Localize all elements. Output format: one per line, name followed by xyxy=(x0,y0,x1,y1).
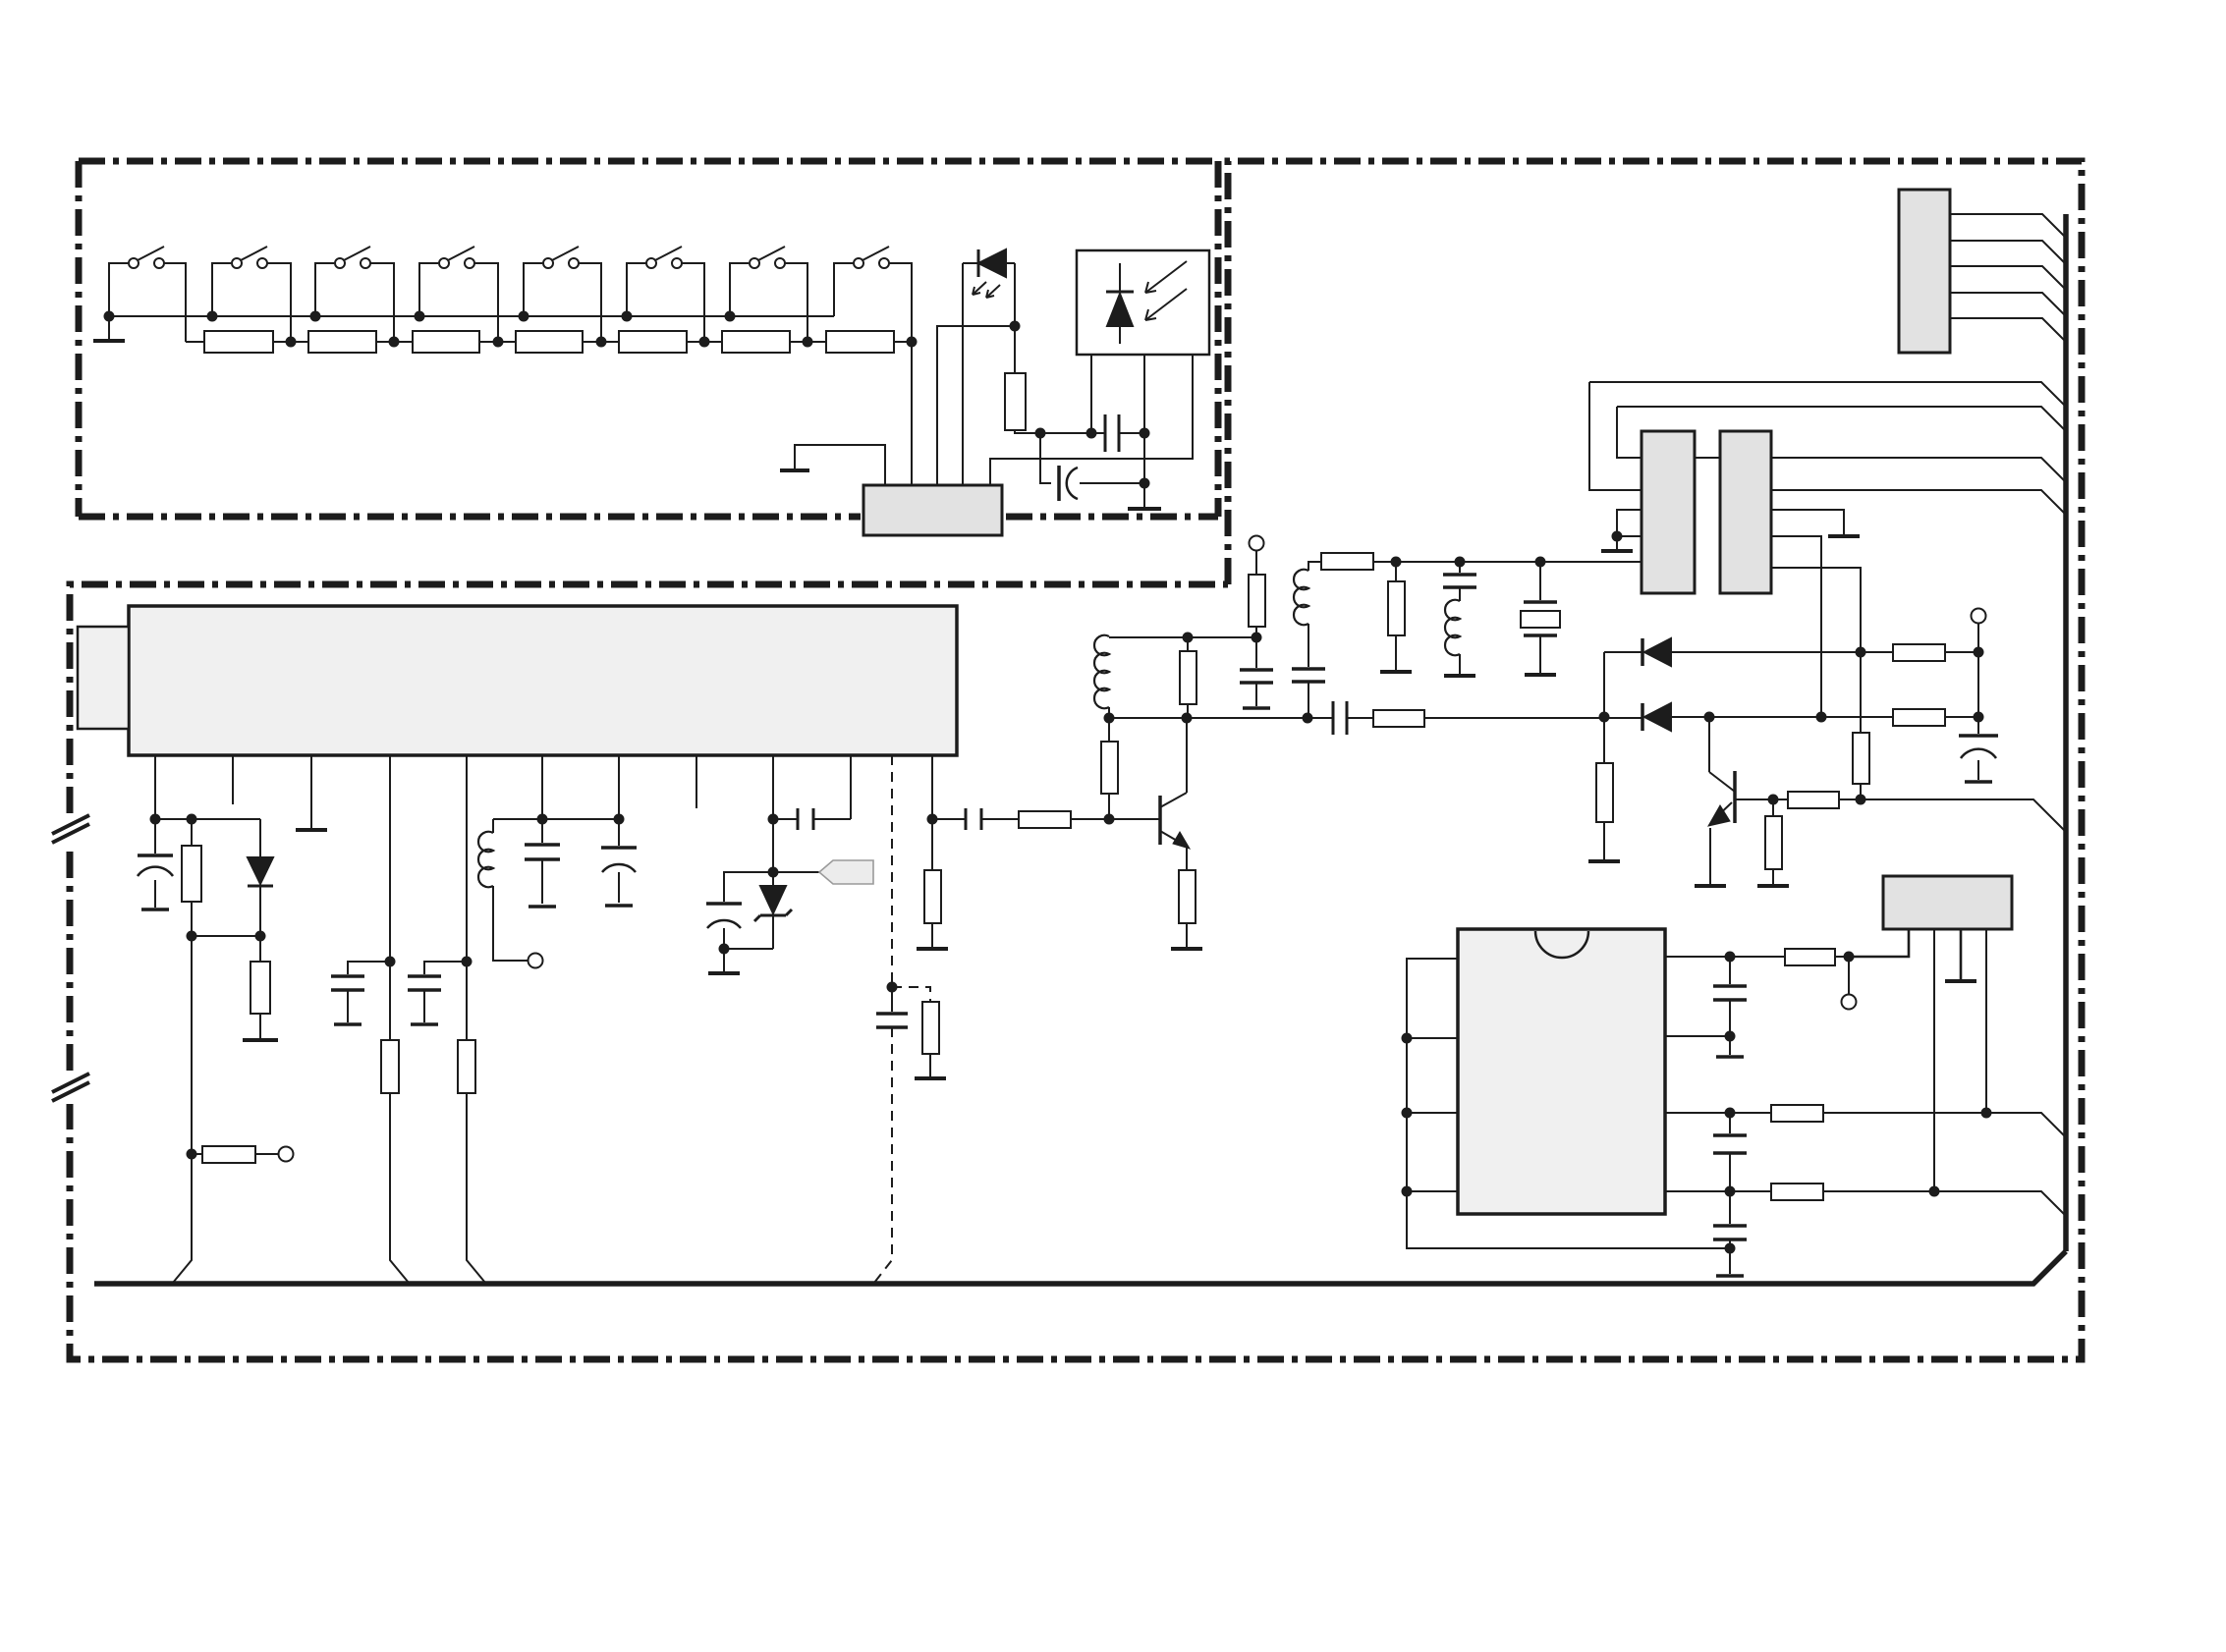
capacitor C14 xyxy=(1292,624,1325,718)
node rail sw7 xyxy=(725,311,736,322)
node R1 xyxy=(1725,952,1736,963)
node collector rail tap xyxy=(1303,713,1313,724)
node R4 xyxy=(1725,1186,1736,1197)
ground (R16) xyxy=(915,1076,946,1080)
wire J1 pin5 xyxy=(1950,318,2066,342)
wire pin8 stub xyxy=(696,755,697,808)
wire pin11 xyxy=(931,755,933,819)
capacitor C5 xyxy=(408,962,467,1024)
resistor R28 xyxy=(1788,792,1861,808)
capacitor C3 (electrolytic) xyxy=(138,819,173,909)
wire pin5 down to bus xyxy=(467,755,485,1283)
resistor R14 xyxy=(1019,811,1109,828)
node D5 T2 tap xyxy=(1816,712,1827,723)
voltage regulator U2 xyxy=(1883,876,2012,929)
wire tap5 xyxy=(704,341,722,343)
wire base feed xyxy=(1109,818,1160,820)
IF transformer T1 xyxy=(1642,431,1695,593)
resistor R22 (IF rail) xyxy=(1321,553,1642,570)
wire T2 pin R2 to bus xyxy=(1771,490,2065,514)
wire bus line B xyxy=(1617,407,2065,430)
wire pin1 xyxy=(154,755,156,819)
wire photodiode box lead mid xyxy=(1143,355,1145,483)
resistor R13 (in pin5 line) xyxy=(458,1040,475,1093)
node R31 line tap xyxy=(1981,1108,1992,1119)
node rail sw6 xyxy=(622,311,633,322)
capacitor C2 (electrolytic) xyxy=(1040,433,1144,501)
wire dashed tap to R16 xyxy=(892,987,930,1002)
zener diode ZD1 xyxy=(754,872,792,949)
resistor R21 xyxy=(1373,710,1424,727)
node tap2 xyxy=(389,337,400,348)
stub C19 return xyxy=(1729,1248,1731,1274)
switch S6 xyxy=(627,247,704,342)
ground (T1) xyxy=(1601,549,1633,553)
wire U3 pin R1 xyxy=(1665,956,1730,958)
wire zener to flag xyxy=(773,871,819,873)
node LED anode junction xyxy=(1010,321,1021,332)
wire pin4 down to bus xyxy=(390,755,409,1283)
wire tap3 xyxy=(498,341,516,343)
capacitor C6 xyxy=(525,819,560,907)
ground bus (thick) xyxy=(94,1251,2066,1284)
wire U3 pin R2 xyxy=(1665,1035,1730,1037)
ground (keyboard common rail) xyxy=(93,316,125,341)
audio IC U3 xyxy=(1458,929,1665,1214)
resistor R20 (to test point) xyxy=(1249,551,1265,637)
wire D4 left drop xyxy=(1603,652,1605,717)
capacitor C4 xyxy=(331,962,390,1024)
node R3 xyxy=(1725,1108,1736,1119)
ground (R29) xyxy=(1757,884,1789,888)
ground (U2) xyxy=(1945,979,1976,983)
node R9 top xyxy=(187,814,197,825)
node U2 input xyxy=(1844,952,1855,963)
wire AFT vertical xyxy=(1977,623,1979,734)
node R17 top xyxy=(1104,713,1115,724)
node T1 L4 xyxy=(1612,531,1623,542)
wire T2 pin R5 drop xyxy=(1771,568,1861,652)
node D4 line tap xyxy=(1856,647,1866,658)
resistor R7 (ladder) xyxy=(826,331,912,353)
resistor R10 xyxy=(250,936,270,1038)
wire U2 pinB drop xyxy=(1933,929,1935,1191)
diode D4 xyxy=(1604,638,1893,666)
wire U3 left rail xyxy=(1407,959,1730,1248)
wire pin3 xyxy=(310,755,312,828)
wire pin9 xyxy=(772,755,774,819)
node tap1 xyxy=(286,337,297,348)
ground (keyboard IC) xyxy=(780,468,809,472)
resistor R12 (in pin4 line) xyxy=(381,1040,399,1093)
terminal (osc coil) xyxy=(529,954,543,968)
capacitor C11 (in dashed line) xyxy=(876,987,908,1027)
aux block at IC left xyxy=(78,627,129,729)
wire AGC line down to bus xyxy=(173,936,192,1283)
wire bus line A xyxy=(1589,382,2065,406)
wire tap1 xyxy=(291,341,308,343)
capacitor C10 (series) xyxy=(932,808,1019,830)
wire photodiode box lead right xyxy=(990,355,1193,485)
resistor R5 (ladder) xyxy=(619,331,704,353)
node rail sw1 xyxy=(104,311,115,322)
switch S5 xyxy=(524,247,601,342)
inductor L1 xyxy=(478,819,529,961)
node dashed tap xyxy=(887,982,898,993)
node rail sw3 xyxy=(310,311,321,322)
node R9 bottom xyxy=(187,931,197,942)
node AGC tap xyxy=(187,1149,197,1160)
wire T2 pin R1 to bus xyxy=(1771,458,2065,481)
ground (IR receiver) xyxy=(1128,483,1161,509)
node IF rail a xyxy=(1391,557,1402,568)
wire T1 pin L1 riser xyxy=(1617,407,1642,458)
resistor R6 (ladder) xyxy=(722,331,807,353)
resistor R31 xyxy=(1771,1105,2065,1136)
wire pin1 node row xyxy=(155,818,260,820)
node pin4 cap tap xyxy=(385,957,396,967)
wire tank top rail xyxy=(1109,636,1256,638)
wire pin2 stub xyxy=(232,755,234,804)
ground (R26) xyxy=(1588,859,1620,863)
flag label (band marker) xyxy=(819,860,873,884)
wire zener branch xyxy=(772,819,774,872)
capacitor C13 (series) xyxy=(1333,701,1347,735)
ground (zener) xyxy=(708,949,740,973)
resistor R9 xyxy=(182,819,201,936)
wire J1 pin1 xyxy=(1950,214,2066,238)
wire cap to box lead xyxy=(1119,432,1144,434)
terminal (AGC test) xyxy=(279,1147,294,1162)
resistor R11 xyxy=(192,1146,279,1163)
node tank a xyxy=(1183,633,1194,643)
node rail sw4 xyxy=(415,311,425,322)
wire U3 pin L2 xyxy=(1407,1037,1458,1039)
switch S4 xyxy=(419,247,498,342)
node C19 bottom xyxy=(1725,1243,1736,1254)
wire collector rail xyxy=(1109,717,1642,719)
wire U2 pinC stub xyxy=(1960,929,1963,979)
capacitor C19 xyxy=(1713,1191,1747,1248)
main board dash-dot border outline xyxy=(70,161,2082,1359)
wire tap2 xyxy=(394,341,413,343)
capacitor C1 (series) xyxy=(1105,414,1119,452)
inductor L3 xyxy=(1294,562,1321,625)
switch S7 xyxy=(730,247,807,342)
ground (R15) xyxy=(917,947,948,951)
wire U3 pin R4 xyxy=(1665,1190,1771,1192)
node R32 line tap xyxy=(1929,1186,1940,1197)
ground (X1) xyxy=(1525,673,1556,677)
wire Q2 base xyxy=(1735,798,1788,800)
wire R9-D3 bottoms xyxy=(192,935,260,937)
ground (Q2 emitter) xyxy=(1695,884,1726,888)
node pin11 xyxy=(927,814,938,825)
wire pin6 xyxy=(541,755,543,819)
IF transformer T2 xyxy=(1720,431,1771,593)
IC notch xyxy=(1535,931,1588,958)
switch S2 xyxy=(212,247,291,342)
terminal (supply) xyxy=(1842,995,1857,1010)
node base line a xyxy=(1768,795,1779,805)
border break mark (lower) xyxy=(52,1074,89,1101)
wire U3 pin L4 xyxy=(1407,1190,1458,1192)
wire U3 pin R3 xyxy=(1665,1112,1771,1114)
node pin5 cap tap xyxy=(462,957,473,967)
dashed control line xyxy=(891,755,893,985)
wire T2 pin R4 drop xyxy=(1771,536,1821,717)
node tap7 output xyxy=(907,337,918,348)
capacitor C16 (electrolytic) xyxy=(1959,736,1998,782)
resistor R15 (pin11 lower) xyxy=(924,819,941,947)
wire dashed line to bus xyxy=(874,1027,892,1283)
node base line b xyxy=(1856,795,1866,805)
photodiode box xyxy=(1077,250,1209,355)
wire T1 pin L2 riser xyxy=(1589,382,1642,490)
switch S8 xyxy=(834,247,912,342)
capacitor C17 xyxy=(1713,957,1747,1036)
ground (emitter) xyxy=(1171,947,1202,951)
wire keypad output to IC xyxy=(911,342,913,485)
photodiode D2 xyxy=(1106,261,1187,344)
node D4-D5 junction xyxy=(1599,712,1610,723)
bar (C17 return) xyxy=(1716,1055,1744,1059)
node IF rail c xyxy=(1535,557,1546,568)
wire J1 pin4 xyxy=(1950,293,2066,316)
resistor R24 xyxy=(1893,644,1978,661)
inductor L4 xyxy=(1445,600,1460,674)
terminal (AFT) xyxy=(1972,609,1986,624)
wire U2 input to terminal xyxy=(1848,957,1850,994)
capacitor C15 xyxy=(1443,562,1476,601)
resistor R18 (emitter) xyxy=(1179,870,1196,947)
node L3 xyxy=(1402,1108,1413,1119)
resistor R1 (ladder) xyxy=(186,331,291,353)
diode D5 xyxy=(1642,703,1893,731)
node D5 collector tap xyxy=(1704,712,1715,723)
node tap4 xyxy=(596,337,607,348)
node rail sw5 xyxy=(519,311,529,322)
keyboard unit dash-dot border box xyxy=(79,161,1218,517)
ground (L4) xyxy=(1444,674,1475,678)
node tap6 xyxy=(803,337,813,348)
node C2 right xyxy=(1140,478,1150,489)
node L2 xyxy=(1402,1033,1413,1044)
resistor R26 xyxy=(1596,717,1613,859)
wire photodiode box lead left xyxy=(1090,355,1092,433)
node cap row b xyxy=(1086,428,1097,439)
node R24 right xyxy=(1974,647,1984,658)
wire zener bottom xyxy=(724,948,773,950)
wire pin10 xyxy=(850,755,852,819)
stub C17 return xyxy=(1729,1036,1731,1055)
big tuner/controller IC xyxy=(129,606,957,755)
wire U2 pinA xyxy=(1849,929,1909,957)
capacitor C12 (stub) xyxy=(1240,637,1273,708)
node tap3 xyxy=(493,337,504,348)
wire anode node to IC pin xyxy=(937,326,1015,485)
resistor R30 xyxy=(1730,949,1849,965)
node collector xyxy=(1182,713,1193,724)
node tap5 xyxy=(699,337,710,348)
resistor R2 (ladder) xyxy=(308,331,394,353)
keyboard interface IC box xyxy=(863,485,1002,535)
capacitor C18 xyxy=(1713,1113,1747,1191)
bar (C19 return) xyxy=(1716,1274,1744,1278)
node R2 xyxy=(1725,1031,1736,1042)
node R25 right xyxy=(1974,712,1984,723)
switch S1 xyxy=(109,247,186,342)
wire tap6 xyxy=(807,341,826,343)
node IF rail b xyxy=(1455,557,1466,568)
wire T1 pins L3-L4 tie xyxy=(1617,510,1642,549)
wire T1-T2 link xyxy=(1695,457,1720,459)
node tank b xyxy=(1252,633,1262,643)
wire J1 pin2 xyxy=(1950,241,2066,264)
node pin9 xyxy=(768,814,779,825)
wire U3 pin L3 xyxy=(1407,1112,1458,1114)
wire IC pin to ground stub xyxy=(795,445,885,485)
LED D1 (remote indicator) xyxy=(963,249,1015,298)
node zener top xyxy=(768,867,779,878)
connector J1 xyxy=(1899,190,1950,353)
capacitor C9 (electrolytic) xyxy=(706,872,773,949)
transistor Q1 (NPN) xyxy=(1160,718,1190,870)
node D3 bottom xyxy=(255,931,266,942)
node L4 xyxy=(1402,1186,1413,1197)
wire LED anode down xyxy=(1014,263,1016,326)
resistor R32 xyxy=(1771,1184,2065,1215)
resistor R4 (ladder) xyxy=(516,331,601,353)
inductor L2 xyxy=(1094,635,1109,718)
node pin1 xyxy=(150,814,161,825)
terminal (IF test) xyxy=(1250,536,1264,551)
resistor R8 (LED) xyxy=(1005,326,1040,433)
resistor R23 xyxy=(1388,562,1405,670)
node pin6 xyxy=(537,814,548,825)
node base Q1 xyxy=(1104,814,1115,825)
node cap row c xyxy=(1140,428,1150,439)
wire common rail xyxy=(109,315,834,317)
resistor R19 (tank) xyxy=(1180,637,1196,718)
resistor R3 (ladder) xyxy=(413,331,498,353)
wire pin7 xyxy=(618,755,620,819)
border break mark (upper) xyxy=(52,815,89,843)
capacitor C8 (series) xyxy=(773,808,851,830)
resistor R27 (D4 to base line) xyxy=(1853,652,1869,799)
ground (R23) xyxy=(1380,670,1412,674)
ground (pin3) xyxy=(296,828,327,832)
wire LED cathode to IC pin xyxy=(962,263,964,485)
crystal X1 xyxy=(1521,562,1560,673)
capacitor C7 (electrolytic) xyxy=(601,819,637,906)
node cap row a xyxy=(1035,428,1046,439)
resistor R29 xyxy=(1765,799,1782,884)
ground (R10) xyxy=(243,1038,278,1042)
resistor R16 xyxy=(922,1002,939,1076)
wire tap4 xyxy=(601,341,619,343)
ground (T2 R3) xyxy=(1828,534,1860,538)
diode D3 xyxy=(248,819,273,936)
node pin7 xyxy=(614,814,625,825)
wire J1 pin3 xyxy=(1950,266,2066,290)
wire base line to bus xyxy=(1861,799,2065,831)
node C9 bottom xyxy=(719,944,730,955)
wire T2 pin R3 stub xyxy=(1771,510,1844,534)
resistor R25 xyxy=(1893,709,1978,726)
transistor Q2 (PNP) xyxy=(1708,717,1735,884)
supply bus (thick vertical) xyxy=(2063,214,2069,1251)
resistor R17 (base to collector rail) xyxy=(1101,718,1118,819)
wire U2 pinD drop xyxy=(1985,929,1987,1113)
node rail sw2 xyxy=(207,311,218,322)
wire cap row xyxy=(1040,432,1105,434)
switch S3 xyxy=(315,247,394,342)
wire osc row xyxy=(493,818,619,820)
